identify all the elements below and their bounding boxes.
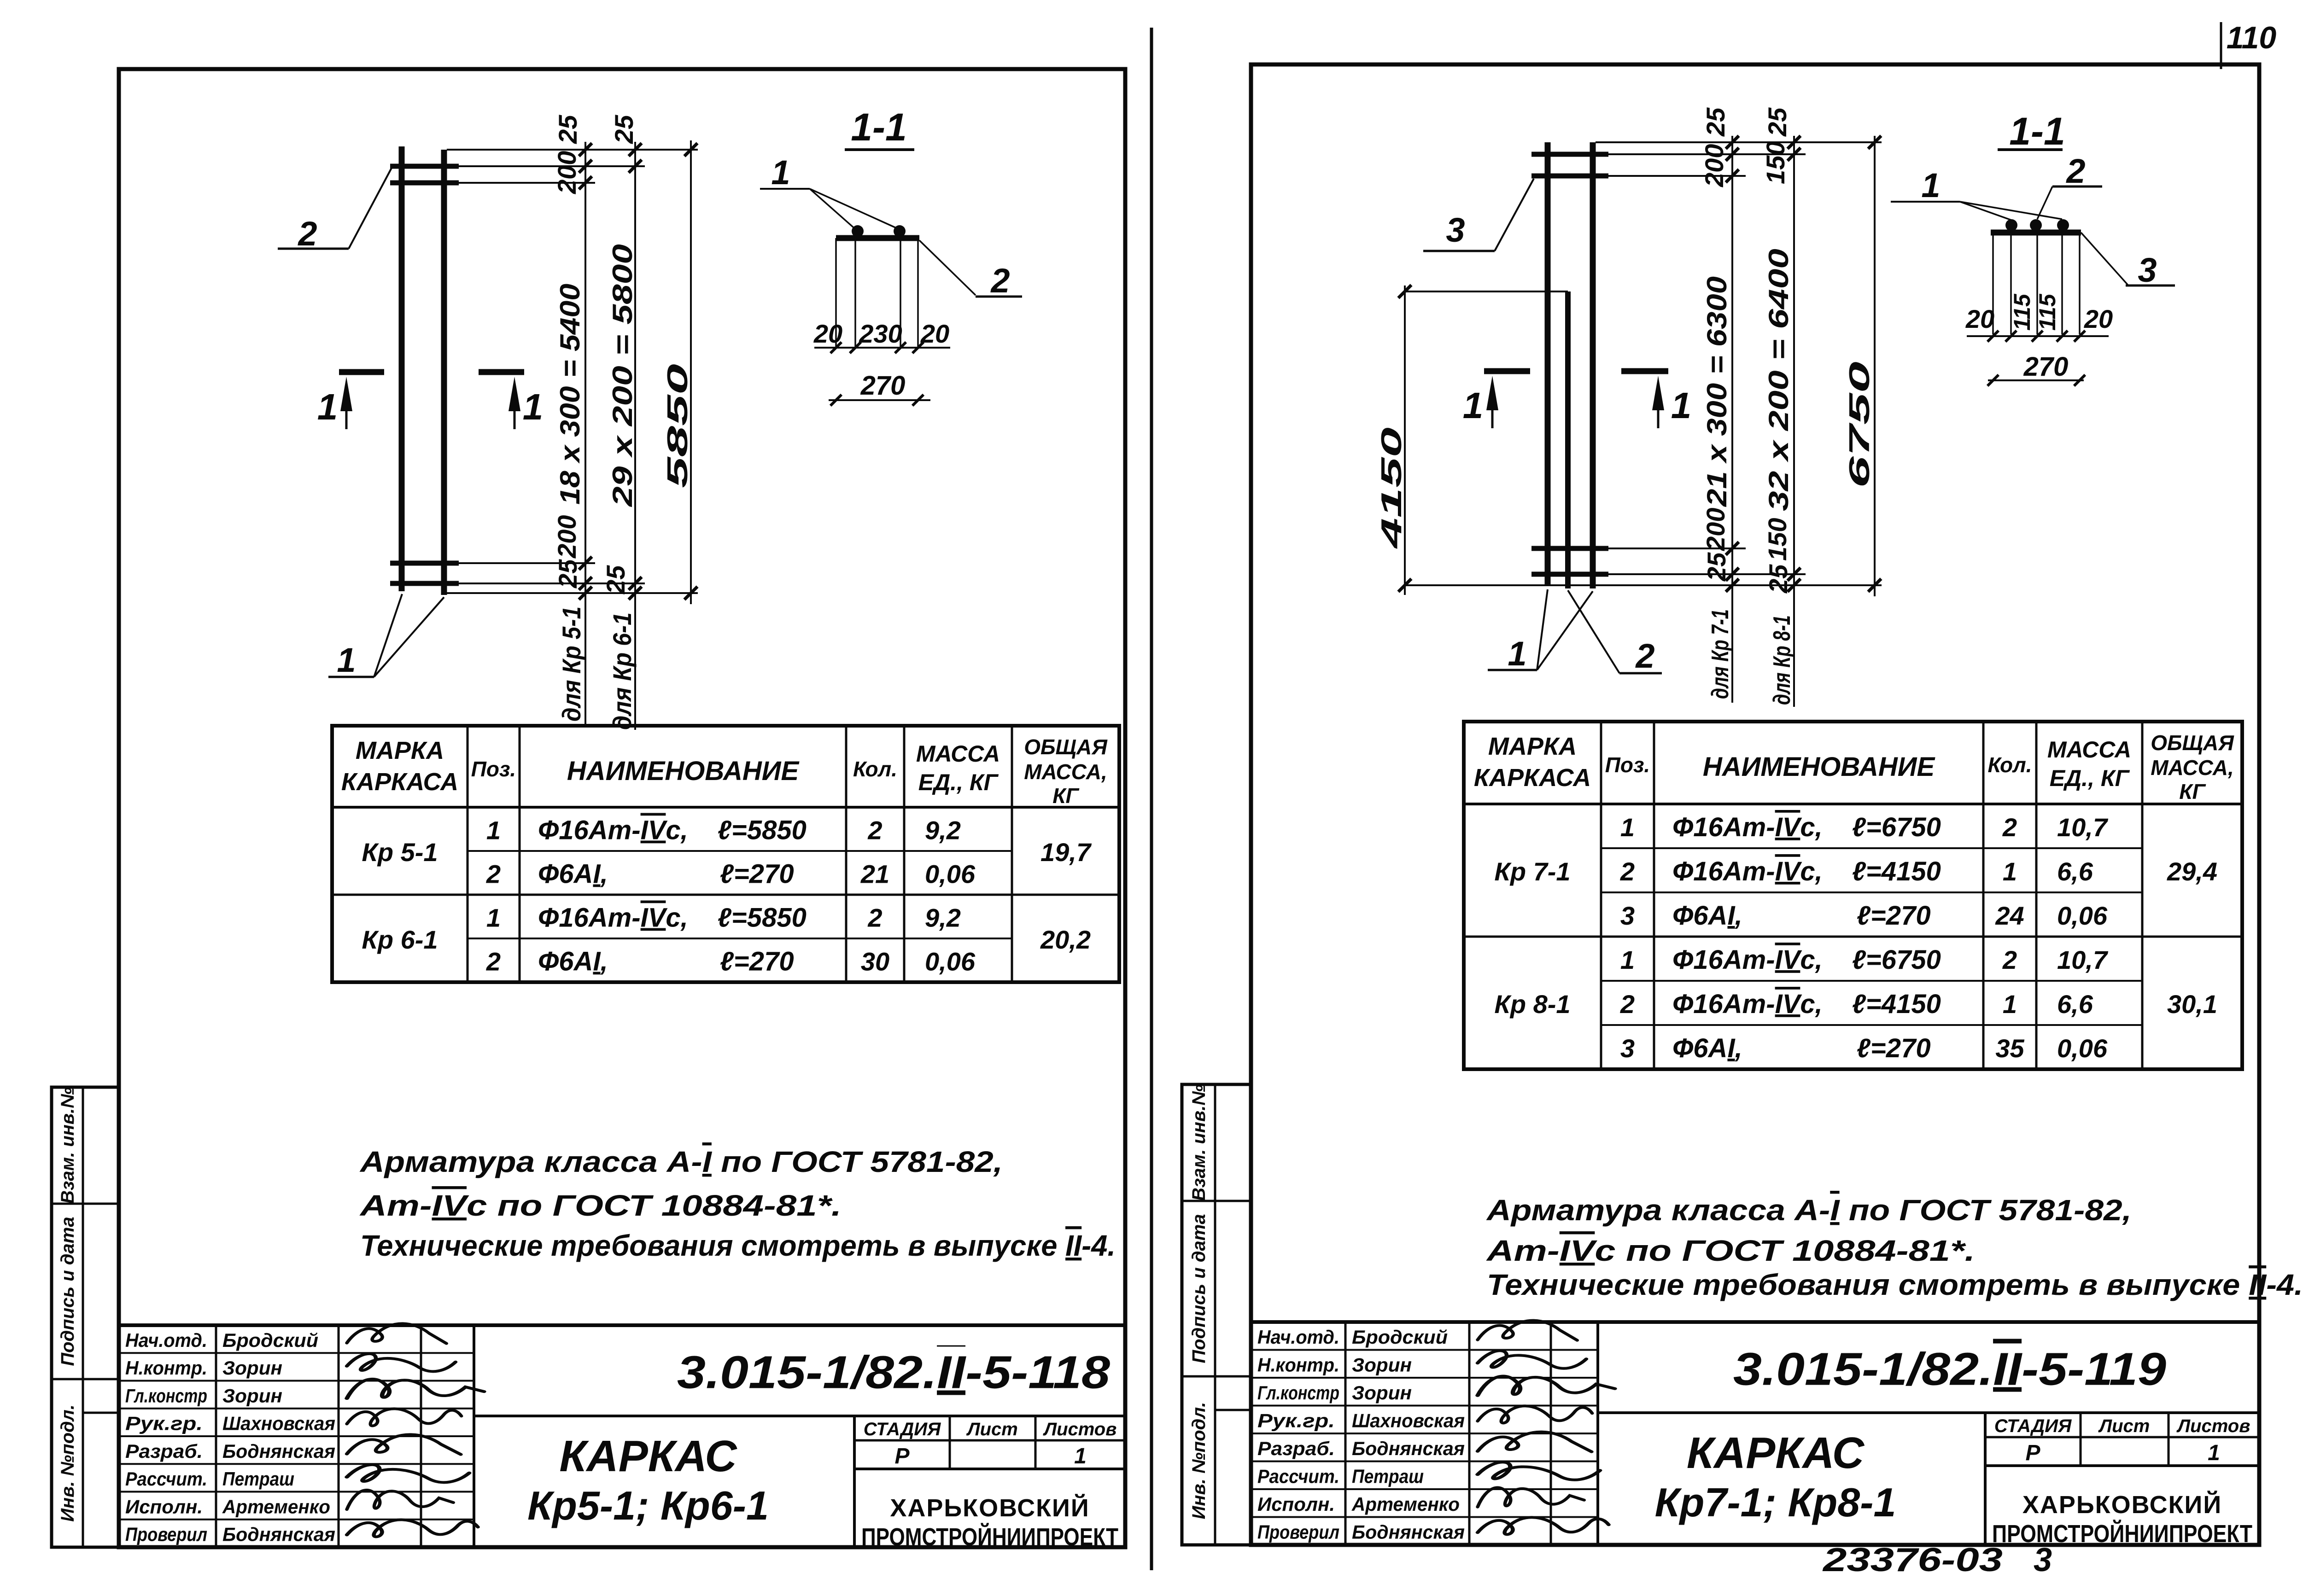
svg-text:2: 2	[486, 947, 501, 976]
svg-text:Кр7-1; Кр8-1: Кр7-1; Кр8-1	[1655, 1480, 1896, 1525]
svg-text:1: 1	[1463, 385, 1484, 426]
svg-text:СТАДИЯ: СТАДИЯ	[1994, 1416, 2072, 1436]
svg-text:3: 3	[1620, 901, 1635, 930]
svg-text:Петраш: Петраш	[1352, 1466, 1424, 1487]
svg-text:Боднянская: Боднянская	[1352, 1521, 1465, 1543]
svg-text:ℓ=6750: ℓ=6750	[1852, 945, 1941, 975]
svg-text:Ф6АI,: Ф6АI,	[1672, 901, 1742, 931]
svg-text:9,2: 9,2	[925, 903, 961, 932]
svg-text:КАРКАСА: КАРКАСА	[1474, 764, 1591, 792]
svg-text:Технические требования смотрет: Технические требования смотреть в выпуск…	[1487, 1268, 2303, 1301]
svg-text:Нач.отд.: Нач.отд.	[125, 1329, 207, 1351]
svg-text:Боднянская: Боднянская	[222, 1440, 335, 1462]
svg-text:3.015-1/82.II-5-119: 3.015-1/82.II-5-119	[1733, 1344, 2166, 1395]
svg-text:Исполн.: Исполн.	[1257, 1493, 1335, 1515]
svg-text:32 x 200 = 6400: 32 x 200 = 6400	[1763, 249, 1794, 511]
svg-text:МАССА: МАССА	[916, 741, 1000, 767]
svg-text:1: 1	[1508, 635, 1526, 673]
svg-text:1: 1	[2208, 1441, 2220, 1465]
svg-text:Боднянская: Боднянская	[222, 1524, 335, 1545]
svg-text:29 x 200 = 5800: 29 x 200 = 5800	[607, 244, 638, 507]
svg-text:Гл.констр: Гл.констр	[1257, 1382, 1339, 1404]
svg-text:Р: Р	[2025, 1441, 2040, 1465]
svg-text:2: 2	[2065, 152, 2085, 190]
svg-text:Ф16Ат-IVс,: Ф16Ат-IVс,	[538, 903, 688, 933]
svg-text:24: 24	[1995, 901, 2024, 930]
svg-text:МАРКА: МАРКА	[356, 737, 444, 764]
svg-text:НАИМЕНОВАНИЕ: НАИМЕНОВАНИЕ	[567, 756, 800, 786]
svg-text:Ф6АI,: Ф6АI,	[538, 859, 608, 889]
svg-text:ХАРЬКОВСКИЙ: ХАРЬКОВСКИЙ	[890, 1494, 1089, 1522]
svg-text:6,6: 6,6	[2057, 990, 2093, 1019]
svg-text:1-1: 1-1	[2009, 110, 2065, 153]
svg-text:Нач.отд.: Нач.отд.	[1257, 1326, 1339, 1348]
svg-text:Боднянская: Боднянская	[1352, 1438, 1465, 1459]
svg-text:ℓ=270: ℓ=270	[720, 859, 794, 889]
svg-text:2: 2	[486, 860, 501, 889]
svg-text:Петраш: Петраш	[222, 1468, 294, 1490]
svg-text:21: 21	[860, 860, 889, 889]
svg-text:Ф16Ат-IVс,: Ф16Ат-IVс,	[1672, 856, 1823, 886]
svg-text:23376-03: 23376-03	[1822, 1542, 2003, 1579]
svg-text:115: 115	[2034, 293, 2060, 331]
svg-text:150: 150	[1763, 518, 1792, 561]
svg-text:Поз.: Поз.	[1605, 753, 1650, 777]
svg-text:2: 2	[2002, 813, 2017, 842]
svg-text:Рук.гр.: Рук.гр.	[125, 1413, 203, 1434]
svg-text:ПРОМСТРОЙНИИПРОЕКТ: ПРОМСТРОЙНИИПРОЕКТ	[861, 1523, 1118, 1551]
svg-text:Лист: Лист	[966, 1419, 1018, 1439]
svg-text:2: 2	[1620, 857, 1635, 886]
svg-text:Ф6АI,: Ф6АI,	[538, 947, 608, 977]
svg-text:230: 230	[859, 319, 902, 348]
svg-text:30,1: 30,1	[2167, 990, 2217, 1019]
svg-text:0,06: 0,06	[2057, 1034, 2108, 1063]
svg-text:ℓ=5850: ℓ=5850	[718, 815, 807, 845]
svg-text:200: 200	[1701, 508, 1730, 551]
svg-text:1: 1	[1671, 385, 1692, 426]
svg-text:1: 1	[523, 386, 544, 427]
svg-text:Кол.: Кол.	[853, 757, 897, 781]
svg-text:Рассчит.: Рассчит.	[1257, 1466, 1339, 1487]
svg-text:3: 3	[1620, 1034, 1635, 1063]
svg-text:Взам. инв.№: Взам. инв.№	[58, 1087, 78, 1204]
svg-text:Ат-IVс по ГОСТ 10884-81*.: Ат-IVс по ГОСТ 10884-81*.	[1485, 1234, 1975, 1267]
svg-text:Инв. №подл.: Инв. №подл.	[58, 1404, 78, 1522]
svg-text:Зорин: Зорин	[222, 1357, 282, 1379]
svg-text:Шахновская: Шахновская	[222, 1413, 335, 1434]
svg-text:21 x 300 = 6300: 21 x 300 = 6300	[1701, 276, 1732, 507]
svg-text:Шахновская: Шахновская	[1352, 1410, 1465, 1432]
svg-text:для Кр 5-1: для Кр 5-1	[557, 606, 586, 722]
svg-text:Артеменко: Артеменко	[222, 1496, 330, 1517]
svg-text:6750: 6750	[1844, 361, 1876, 488]
svg-text:НАИМЕНОВАНИЕ: НАИМЕНОВАНИЕ	[1703, 752, 1936, 782]
svg-text:1: 1	[1620, 945, 1635, 974]
svg-text:КГ: КГ	[1052, 784, 1079, 808]
svg-text:Поз.: Поз.	[471, 757, 516, 781]
svg-text:1: 1	[337, 641, 356, 679]
svg-text:115: 115	[2009, 293, 2035, 331]
svg-text:19,7: 19,7	[1040, 838, 1092, 867]
svg-text:Ф6АI,: Ф6АI,	[1672, 1033, 1742, 1063]
svg-text:КАРКАС: КАРКАС	[1687, 1428, 1865, 1478]
svg-text:ХАРЬКОВСКИЙ: ХАРЬКОВСКИЙ	[2022, 1491, 2222, 1519]
svg-text:20: 20	[1965, 304, 1994, 333]
svg-text:Листов: Листов	[1043, 1419, 1117, 1439]
svg-text:25: 25	[553, 115, 582, 144]
svg-text:КГ: КГ	[2179, 780, 2206, 804]
svg-text:Ат-IVс по ГОСТ 10884-81*.: Ат-IVс по ГОСТ 10884-81*.	[359, 1189, 842, 1222]
svg-text:1: 1	[317, 386, 338, 427]
svg-text:0,06: 0,06	[925, 860, 976, 889]
svg-text:1: 1	[1921, 166, 1940, 204]
svg-text:Листов: Листов	[2176, 1416, 2250, 1436]
svg-text:ℓ=4150: ℓ=4150	[1852, 856, 1941, 886]
svg-text:Технические требования смотрет: Технические требования смотреть в выпуск…	[360, 1229, 1116, 1262]
svg-text:Разраб.: Разраб.	[125, 1440, 203, 1462]
svg-text:ОБЩАЯ: ОБЩАЯ	[1024, 735, 1108, 759]
svg-text:Инв. №подл.: Инв. №подл.	[1189, 1402, 1209, 1520]
svg-text:10,7: 10,7	[2057, 945, 2109, 974]
svg-text:Кол.: Кол.	[1987, 753, 2032, 777]
svg-text:35: 35	[1995, 1034, 2024, 1063]
svg-text:ℓ=5850: ℓ=5850	[718, 903, 807, 933]
svg-text:270: 270	[860, 371, 906, 401]
svg-text:30: 30	[861, 947, 889, 976]
svg-text:1: 1	[486, 903, 501, 932]
svg-text:ℓ=270: ℓ=270	[1857, 1033, 1931, 1063]
svg-text:3.015-1/82.II-5-118: 3.015-1/82.II-5-118	[677, 1347, 1110, 1398]
svg-text:Гл.констр: Гл.констр	[125, 1385, 207, 1406]
svg-text:для Кр 6-1: для Кр 6-1	[608, 612, 637, 730]
svg-text:29,4: 29,4	[2167, 857, 2217, 886]
svg-text:Кр 6-1: Кр 6-1	[362, 925, 438, 954]
svg-text:25: 25	[1702, 552, 1731, 582]
svg-text:Лист: Лист	[2098, 1416, 2150, 1436]
svg-text:Зорин: Зорин	[1352, 1382, 1412, 1404]
svg-text:20: 20	[813, 319, 842, 348]
svg-text:Артеменко: Артеменко	[1351, 1493, 1460, 1515]
svg-text:1: 1	[2003, 990, 2017, 1019]
svg-text:Зорин: Зорин	[1352, 1354, 1412, 1376]
svg-text:ℓ=270: ℓ=270	[1857, 901, 1931, 931]
svg-text:МАССА,: МАССА,	[1024, 760, 1107, 784]
svg-text:Проверил: Проверил	[125, 1524, 207, 1545]
svg-text:9,2: 9,2	[925, 816, 961, 845]
svg-text:10,7: 10,7	[2057, 813, 2109, 842]
svg-text:Арматура класса А-I по: Арматура класса А-I по ГОСТ 5781-82,	[359, 1145, 1003, 1178]
svg-text:0,06: 0,06	[925, 947, 976, 976]
svg-text:4150: 4150	[1376, 427, 1408, 550]
svg-text:Кр 8-1: Кр 8-1	[1494, 990, 1570, 1019]
svg-text:Ф16Ат-IVс,: Ф16Ат-IVс,	[1672, 989, 1823, 1019]
svg-text:270: 270	[2023, 352, 2069, 382]
svg-text:20,2: 20,2	[1040, 925, 1091, 954]
svg-text:МАССА: МАССА	[2047, 737, 2131, 763]
svg-text:Рассчит.: Рассчит.	[125, 1468, 207, 1490]
svg-text:Взам. инв.№: Взам. инв.№	[1189, 1084, 1209, 1201]
svg-text:ОБЩАЯ: ОБЩАЯ	[2151, 731, 2234, 755]
svg-text:1: 1	[486, 816, 501, 845]
svg-text:Исполн.: Исполн.	[125, 1496, 203, 1517]
svg-text:КАРКАСА: КАРКАСА	[341, 768, 458, 796]
svg-text:МАРКА: МАРКА	[1488, 733, 1577, 760]
svg-text:Бродский: Бродский	[1352, 1326, 1448, 1348]
svg-text:6,6: 6,6	[2057, 857, 2093, 886]
svg-text:Кр 5-1: Кр 5-1	[362, 838, 438, 867]
svg-text:2: 2	[990, 262, 1010, 300]
svg-text:Подпись и дата: Подпись и дата	[58, 1217, 78, 1366]
svg-text:2: 2	[297, 215, 317, 253]
svg-text:1: 1	[2003, 857, 2017, 886]
svg-text:Зорин: Зорин	[222, 1385, 282, 1406]
svg-text:Рук.гр.: Рук.гр.	[1257, 1410, 1335, 1432]
svg-text:2: 2	[1620, 990, 1635, 1019]
svg-text:ℓ=270: ℓ=270	[720, 947, 794, 977]
svg-text:1-1: 1-1	[851, 105, 906, 149]
svg-text:Бродский: Бродский	[222, 1329, 318, 1351]
svg-text:18 x 300 = 5400: 18 x 300 = 5400	[555, 284, 585, 505]
svg-text:200: 200	[552, 151, 581, 194]
svg-text:2: 2	[2002, 945, 2017, 974]
svg-text:2: 2	[867, 903, 882, 932]
svg-text:1: 1	[1074, 1444, 1087, 1468]
svg-text:25: 25	[1764, 564, 1793, 594]
svg-text:Арматура класса А-I по: Арматура класса А-I по ГОСТ 5781-82,	[1486, 1194, 2132, 1227]
svg-text:Проверил: Проверил	[1257, 1521, 1339, 1543]
svg-text:20: 20	[2084, 304, 2113, 333]
svg-text:ПРОМСТРОЙНИИПРОЕКТ: ПРОМСТРОЙНИИПРОЕКТ	[1992, 1520, 2252, 1548]
svg-text:1: 1	[771, 153, 790, 192]
svg-text:Кр 7-1: Кр 7-1	[1494, 857, 1570, 886]
svg-text:200: 200	[1700, 144, 1729, 187]
svg-text:КАРКАС: КАРКАС	[559, 1432, 737, 1481]
svg-text:Кр5-1; Кр6-1: Кр5-1; Кр6-1	[527, 1483, 769, 1528]
svg-text:0,06: 0,06	[2057, 901, 2108, 930]
svg-text:25: 25	[1763, 107, 1792, 137]
svg-text:20: 20	[920, 319, 949, 348]
svg-text:25: 25	[601, 565, 630, 594]
svg-text:150: 150	[1761, 141, 1790, 184]
svg-text:Н.контр.: Н.контр.	[1257, 1354, 1339, 1376]
svg-text:Ф16Ат-IVс,: Ф16Ат-IVс,	[538, 815, 688, 845]
svg-text:Подпись и дата: Подпись и дата	[1189, 1214, 1209, 1363]
svg-text:3: 3	[2138, 251, 2157, 289]
svg-text:ℓ=6750: ℓ=6750	[1852, 812, 1941, 842]
svg-text:ЕД., КГ: ЕД., КГ	[918, 769, 999, 795]
svg-text:Ф16Ат-IVс,: Ф16Ат-IVс,	[1672, 945, 1823, 975]
svg-text:ЕД., КГ: ЕД., КГ	[2050, 765, 2130, 791]
svg-text:для Кр 8-1: для Кр 8-1	[1769, 615, 1795, 705]
svg-text:110: 110	[2227, 20, 2277, 55]
svg-text:Разраб.: Разраб.	[1257, 1438, 1335, 1459]
svg-text:Р: Р	[894, 1444, 910, 1468]
svg-text:1: 1	[1620, 813, 1635, 842]
svg-text:25: 25	[609, 115, 638, 144]
svg-text:ℓ=4150: ℓ=4150	[1852, 989, 1941, 1019]
svg-text:200: 200	[552, 515, 581, 559]
svg-text:Ф16Ат-IVс,: Ф16Ат-IVс,	[1672, 812, 1823, 842]
svg-text:25: 25	[1701, 107, 1730, 137]
svg-text:СТАДИЯ: СТАДИЯ	[864, 1419, 941, 1439]
svg-text:3: 3	[1446, 211, 1465, 249]
svg-text:2: 2	[867, 816, 882, 845]
svg-text:25: 25	[553, 559, 582, 588]
svg-text:5850: 5850	[662, 364, 694, 488]
svg-text:для Кр 7-1: для Кр 7-1	[1707, 609, 1734, 699]
svg-text:3: 3	[2034, 1542, 2052, 1579]
svg-text:2: 2	[1635, 637, 1654, 675]
svg-text:МАССА,: МАССА,	[2151, 756, 2234, 780]
svg-text:Н.контр.: Н.контр.	[125, 1357, 207, 1379]
